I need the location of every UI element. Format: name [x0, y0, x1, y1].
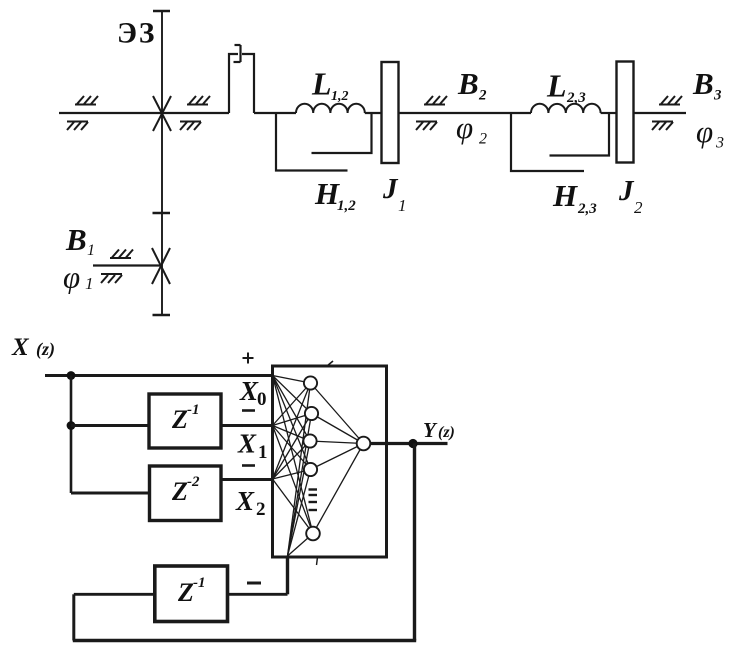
svg-text:2: 2 [478, 88, 487, 104]
svg-text:Z: Z [171, 405, 188, 434]
label Z-2 [171, 474, 200, 506]
svg-text:2: 2 [634, 198, 643, 217]
label X(z) input [11, 334, 55, 361]
ground hatch lower-right of port crossing [180, 122, 201, 131]
wire feedback bottom horizontal [73, 639, 416, 643]
label H1,2 [314, 176, 356, 214]
artifact tick below box bottom [317, 557, 318, 565]
svg-text:φ: φ [696, 114, 713, 149]
label H2,3 [552, 178, 597, 217]
label B3 [692, 66, 722, 104]
wire main line section 2 [399, 112, 512, 114]
svg-text:J: J [382, 173, 399, 205]
wire inductor2 to J2 [601, 112, 616, 114]
wire Z-1 output X1 [221, 424, 273, 427]
svg-text:X: X [239, 376, 259, 406]
ground hatch lower at port 2 [416, 122, 437, 131]
wire step discontinuity (notch) [229, 54, 238, 113]
neuron node 3 [303, 434, 316, 447]
inductor L2,3 [531, 104, 601, 113]
wire fan from feedback input [288, 383, 314, 556]
wire feedback left vertical [72, 594, 75, 640]
label phi1 [63, 260, 94, 295]
wire feedback entry vertical [286, 556, 289, 595]
neuron node 5 [306, 527, 320, 541]
wire main transmission line left [59, 112, 229, 114]
svg-text:L: L [311, 66, 332, 102]
svg-text:2: 2 [256, 499, 266, 520]
svg-text:2,3: 2,3 [566, 90, 586, 106]
wire inductor to J1 [365, 112, 381, 114]
wire port 1 line [93, 264, 161, 266]
ground hatch upper at port 2 [424, 96, 447, 105]
svg-text:Z: Z [177, 578, 194, 607]
wire coupled-line outer stub H1,2 [276, 113, 348, 171]
label Y(z) [423, 418, 455, 442]
label J1 [382, 173, 407, 215]
label minus feedback [247, 582, 261, 585]
ground hatch upper-right of port crossing [187, 96, 210, 105]
wire vertical symmetry axis [161, 11, 163, 315]
wire coupled-line outer stub H2,3 [511, 113, 584, 171]
label plus sign [243, 353, 254, 364]
node X crossing mark at axis [153, 96, 171, 131]
svg-text:-1: -1 [187, 402, 200, 418]
node junction dot 2 [67, 421, 76, 430]
label L2,3 [546, 68, 586, 107]
wire output Y(z) [370, 442, 448, 445]
node top cap tick [153, 10, 170, 13]
ground hatch lower-left of port crossing [67, 122, 88, 131]
neuron node 4 [304, 463, 317, 476]
inverter J1 rectangle [382, 62, 399, 163]
neural network box [273, 366, 387, 557]
label J2 [618, 175, 643, 217]
svg-text:(z): (z) [438, 424, 455, 441]
node X crossing mark at port 1 [152, 248, 170, 284]
artifact tick on box top [327, 361, 333, 366]
svg-text:J: J [618, 175, 635, 207]
label phi3 [696, 114, 724, 152]
wire main line to inductor 2 [511, 112, 531, 114]
wire output line port 3 [634, 112, 687, 114]
neuron node 2 [305, 407, 318, 420]
svg-text:1: 1 [258, 442, 268, 463]
label B1 [65, 222, 95, 259]
ground hatch lower at port 1 [101, 274, 122, 283]
wire Z-2 output X2 [221, 478, 273, 481]
node bottom cap tick [153, 314, 171, 317]
label phi2 [456, 110, 487, 148]
label Z-1 feedback [177, 575, 206, 607]
delay block Z-1 [149, 394, 221, 448]
svg-text:1: 1 [85, 274, 94, 293]
wire X(z) input line [45, 374, 273, 377]
wire feedback vertical from output [413, 444, 416, 641]
delay block Z-2 [150, 466, 222, 521]
neuron node 1 [304, 376, 317, 389]
svg-text:X: X [11, 334, 30, 361]
svg-text:3: 3 [715, 135, 724, 152]
svg-text:Y: Y [423, 418, 438, 442]
svg-text:-1: -1 [193, 575, 206, 591]
svg-text:X: X [237, 429, 257, 459]
label minus 2 [242, 464, 255, 467]
svg-text:-2: -2 [187, 474, 200, 490]
node output junction dot [408, 439, 417, 448]
node section tick on axis [153, 212, 171, 214]
svg-text:1: 1 [398, 196, 407, 215]
label X0 [239, 376, 267, 410]
svg-text:2: 2 [479, 131, 487, 148]
svg-text:B: B [692, 66, 714, 101]
svg-text:H: H [552, 178, 578, 213]
wire tap to Z-1 [71, 424, 149, 427]
svg-text:(z): (z) [36, 339, 55, 360]
delay block Z-1 feedback [155, 566, 228, 622]
label Z-1 [171, 402, 200, 434]
inverter J2 rectangle [617, 62, 634, 163]
label L1,2 [311, 66, 349, 105]
svg-text:ЭЗ: ЭЗ [117, 18, 156, 50]
svg-text:φ: φ [63, 260, 80, 295]
svg-text:L: L [546, 68, 567, 104]
svg-text:X: X [235, 486, 255, 516]
wire fan from input X1 [273, 383, 314, 534]
svg-text:1,2: 1,2 [337, 198, 356, 214]
wire hidden to output links [310, 383, 364, 534]
ellipsis dashes [309, 490, 318, 511]
svg-text:3: 3 [713, 88, 722, 104]
wire tap to Z-2 [71, 492, 150, 495]
trimmer bracket symbol [234, 45, 241, 62]
svg-text:1: 1 [87, 242, 95, 259]
svg-text:1,2: 1,2 [331, 89, 349, 104]
label B2 [457, 66, 487, 104]
wire tap vertical [70, 376, 73, 494]
wire feedback to delay block [74, 593, 155, 596]
svg-text:0: 0 [257, 389, 267, 410]
svg-text:B: B [65, 222, 87, 257]
wire delay output to network [228, 593, 288, 596]
svg-text:Z: Z [171, 477, 188, 506]
wire coupled-line inner stub 2 [550, 113, 610, 156]
ground hatch lower at port 3 [652, 122, 673, 131]
svg-text:2,3: 2,3 [577, 201, 597, 217]
wire main line to resonator 1 [254, 112, 296, 114]
ground hatch upper at port 1 [110, 250, 133, 259]
svg-text:φ: φ [456, 110, 473, 145]
svg-text:B: B [457, 66, 479, 101]
wire fan from input X0 [273, 376, 314, 534]
output neuron [357, 437, 371, 451]
inductor L1,2 [296, 104, 365, 113]
wire fan from input X2 [273, 383, 314, 534]
label minus 1 [242, 409, 255, 412]
label X1 [237, 429, 268, 464]
label X2 [235, 486, 266, 520]
wire coupled-line inner stub [312, 113, 372, 153]
ground hatch upper-left of port crossing [75, 96, 98, 105]
ground hatch upper at port 3 [659, 96, 682, 105]
node junction dot 1 [67, 371, 76, 380]
